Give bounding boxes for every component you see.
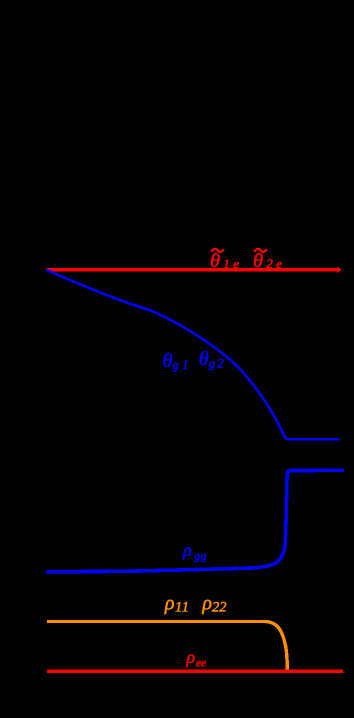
curve theta-g1 / theta-g2 (blue decreasing curve, top panel) <box>47 270 340 439</box>
svg-text:g: g <box>173 358 179 372</box>
svg-text:g: g <box>209 357 215 371</box>
curve rho-ee (red flat line, bottom) <box>47 669 343 673</box>
curve rho-gg (blue population curve, middle) <box>46 470 344 571</box>
svg-text:ρ: ρ <box>164 593 175 615</box>
svg-text:e: e <box>233 256 239 271</box>
label theta-tilde-1e <box>210 249 239 272</box>
arrowhead of red line <box>337 266 341 273</box>
svg-text:2: 2 <box>266 256 273 271</box>
curve rho-11 / rho-22 (orange curve, bottom panel) <box>47 622 287 671</box>
svg-text:θ: θ <box>253 250 263 272</box>
svg-text:θ: θ <box>163 350 173 372</box>
curve theta-tilde-1e / theta-tilde-2e (red flat line, top panel) <box>47 268 338 272</box>
label theta-g1 <box>163 350 189 372</box>
label rho-11 <box>164 593 189 616</box>
label theta-g2 <box>199 348 225 371</box>
label rho-22 <box>201 593 226 616</box>
label rho-ee <box>185 647 207 670</box>
svg-text:1: 1 <box>182 357 189 372</box>
svg-text:θ: θ <box>210 250 220 272</box>
svg-text:e: e <box>276 256 282 271</box>
label theta-tilde-2e <box>253 249 282 272</box>
label rho-gg <box>182 540 207 562</box>
svg-text:g: g <box>194 550 200 562</box>
svg-text:ρ: ρ <box>185 647 195 667</box>
svg-text:1: 1 <box>182 600 189 616</box>
svg-text:ρ: ρ <box>182 540 192 560</box>
svg-text:2: 2 <box>217 356 224 371</box>
svg-text:2: 2 <box>219 600 226 616</box>
svg-text:2: 2 <box>212 600 219 616</box>
svg-text:θ: θ <box>199 348 209 370</box>
svg-text:g: g <box>201 550 207 562</box>
svg-text:1: 1 <box>223 256 230 271</box>
svg-text:e: e <box>201 656 207 670</box>
svg-text:ρ: ρ <box>201 593 212 615</box>
